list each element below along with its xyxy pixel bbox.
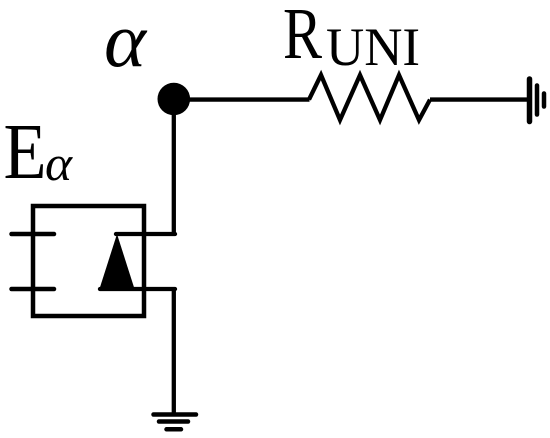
svg-text:E: E — [4, 109, 47, 196]
left terminal stub (upper) — [12, 232, 55, 237]
ground (right, rotated): bar 2 — [535, 86, 540, 115]
ground (right, rotated): bar 1 — [527, 79, 533, 122]
svg-text:α: α — [104, 0, 148, 83]
wire: resistor to right ground — [430, 97, 528, 101]
svg-text:UNI: UNI — [326, 17, 420, 77]
ground (bottom): bar 2 — [159, 419, 188, 424]
wire: box down to ground — [172, 289, 176, 414]
left terminal stub (lower) — [12, 287, 55, 292]
resistor R_UNI (zigzag) — [309, 75, 430, 120]
wire: triangle base out to right — [100, 287, 175, 291]
component box E_alpha — [33, 206, 144, 316]
ground (right, rotated): bar 3 — [542, 94, 547, 107]
svg-text:R: R — [283, 0, 322, 74]
ground (bottom): bar 1 — [154, 412, 197, 417]
node A (junction dot) — [158, 83, 191, 116]
wire: horizontal into box (to diode apex) — [116, 232, 175, 236]
wire: node down to box — [172, 99, 176, 234]
svg-text:α: α — [45, 135, 74, 191]
ground (bottom): bar 3 — [167, 427, 182, 432]
diode triangle inside box — [99, 234, 135, 291]
wire: node to resistor — [173, 97, 310, 101]
